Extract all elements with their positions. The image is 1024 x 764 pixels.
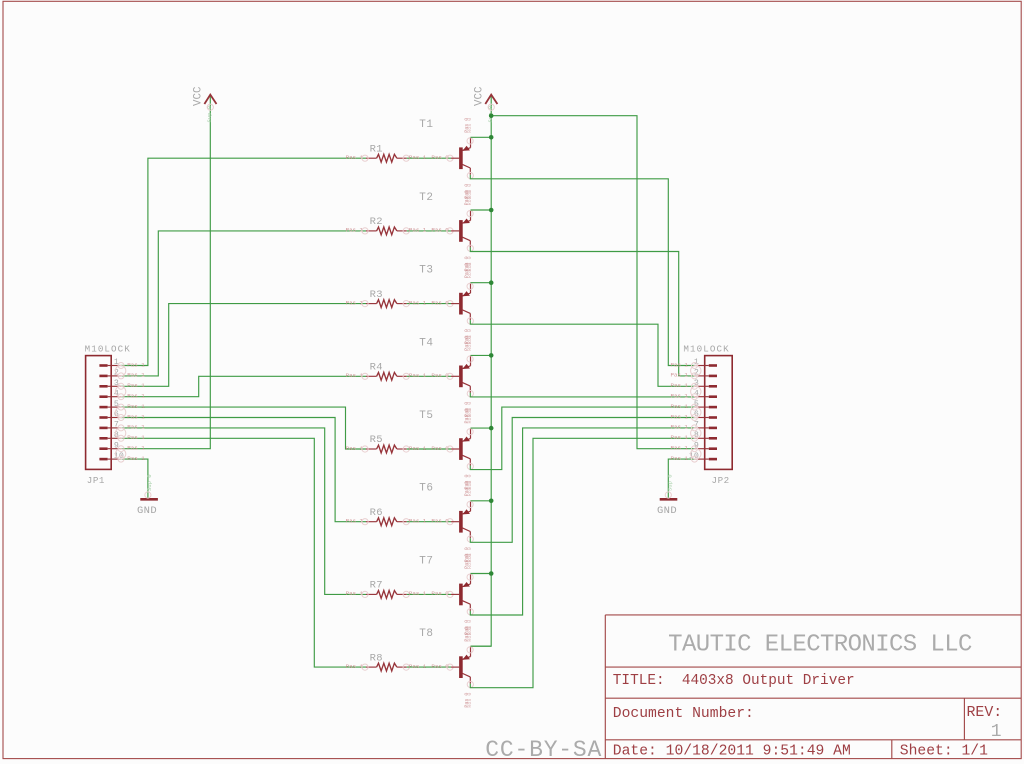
svg-text:Pas 1: Pas 1	[671, 434, 689, 441]
wire T6 collector to JP2 pin 6	[470, 418, 694, 543]
svg-text:R1: R1	[370, 143, 383, 155]
svg-text:JP2: JP2	[712, 475, 730, 486]
svg-text:Pas 1: Pas 1	[346, 154, 364, 161]
svg-text:Pas 1: Pas 1	[127, 393, 145, 400]
label Pas 1 / Pas 0 at T4 base	[409, 372, 453, 379]
resistor R6	[346, 507, 410, 526]
junction T3 emitter on VCC rail	[489, 280, 494, 285]
svg-text:R6: R6	[370, 507, 383, 519]
wire T4 collector to JP2 pin 4	[470, 393, 694, 397]
svg-text:Ros 0: Ros 0	[467, 627, 473, 642]
svg-text:REV:: REV:	[967, 705, 1003, 721]
svg-text:Ros 0: Ros 0	[467, 554, 473, 569]
JP1 pin 6	[99, 410, 145, 420]
svg-text:Pas 1: Pas 1	[127, 413, 145, 420]
wire T3 collector to JP2 pin 3	[470, 320, 694, 386]
wire JP1 pin 3 to R3	[121, 304, 366, 387]
wire T8 collector to JP2 pin 8	[470, 438, 694, 687]
svg-text:Pas 1: Pas 1	[671, 393, 689, 400]
resistor R4	[346, 362, 410, 381]
wire T6 emitter to VCC rail	[471, 500, 492, 502]
svg-text:R3: R3	[370, 289, 383, 301]
vcc supply VCC (left)	[193, 86, 217, 122]
JP2 pin 9	[671, 441, 718, 451]
JP2 pin 2	[671, 369, 718, 379]
svg-text:Pas 1: Pas 1	[671, 424, 689, 431]
resistor R7	[346, 580, 410, 599]
svg-text:GND: GND	[657, 505, 677, 517]
wire JP2 pin 10 to GND	[668, 459, 694, 499]
transistor T7	[419, 554, 473, 635]
wire R8 to T8 base	[407, 666, 451, 668]
svg-text:Ros 0: Ros 0	[467, 693, 473, 708]
svg-text:Pas 1: Pas 1	[127, 455, 145, 462]
revision	[967, 705, 1003, 742]
wire R6 to T6 base	[407, 521, 451, 523]
wire T7 collector to JP2 pin 7	[470, 428, 694, 615]
svg-text:Pas 1: Pas 1	[671, 372, 689, 379]
wire JP1 pin 10 to GND	[121, 459, 148, 499]
svg-text:Pas 1: Pas 1	[346, 227, 364, 234]
svg-text:Pas 1: Pas 1	[409, 299, 427, 306]
wire JP1 pin 9 to VCC	[121, 97, 210, 449]
svg-text:R2: R2	[370, 216, 383, 228]
svg-text:TITLE: 4403x8 Output Driver: TITLE: 4403x8 Output Driver	[613, 673, 855, 689]
svg-text:Pas 1: Pas 1	[127, 372, 145, 379]
label Pas 1 / Pas 0 at T3 base	[409, 299, 453, 306]
svg-text:Pas 1: Pas 1	[346, 372, 364, 379]
svg-text:T4: T4	[419, 337, 433, 349]
wire T3 emitter to VCC rail	[471, 282, 492, 284]
wire T5 collector to JP2 pin 5	[470, 407, 694, 470]
connector JP2 (M10LOCK)	[683, 344, 732, 486]
wire R7 to T7 base	[407, 593, 451, 595]
wire T8 emitter to VCC rail	[471, 645, 492, 647]
vcc supply VCC (right)	[474, 86, 498, 122]
resistor R1	[346, 143, 410, 162]
wire T2 collector to JP2 pin 2	[470, 247, 694, 376]
svg-text:Ros 0: Ros 0	[467, 263, 473, 278]
junction T2 emitter on VCC rail	[489, 208, 494, 213]
label Pas 1 / Pas 0 at T7 base	[409, 590, 453, 597]
junction VCC rail / JP2 pin 9 wire	[489, 113, 494, 118]
svg-text:Pas 1: Pas 1	[127, 445, 145, 452]
transistor T8	[419, 627, 473, 708]
wire T2 emitter to VCC rail	[471, 209, 492, 211]
wire JP1 pin 1 to R1	[121, 158, 366, 365]
junction T1 emitter on VCC rail	[489, 135, 494, 140]
transistor T4	[419, 336, 473, 417]
wire JP1 pin 4 to R4	[121, 376, 366, 396]
svg-text:Sheet: 1/1: Sheet: 1/1	[900, 744, 988, 760]
junction T7 emitter on VCC rail	[489, 571, 494, 576]
svg-text:Ros 0: Ros 0	[467, 481, 473, 496]
JP1 lock features	[115, 366, 125, 460]
svg-text:Date: 10/18/2011 9:51:49 AM: Date: 10/18/2011 9:51:49 AM	[613, 744, 851, 760]
wire VCC rail to JP2 pin 9	[491, 116, 694, 449]
svg-text:Pas 1: Pas 1	[409, 372, 427, 379]
svg-text:T7: T7	[419, 555, 433, 567]
JP1 pin 5	[99, 400, 145, 410]
svg-text:Ros 0: Ros 0	[467, 118, 473, 133]
wire T5 emitter to VCC rail	[471, 427, 492, 429]
svg-text:Pas 1: Pas 1	[346, 518, 364, 525]
JP1 pin 4	[99, 389, 145, 399]
svg-text:Pas 1: Pas 1	[346, 590, 364, 597]
JP1 pin 7	[99, 421, 145, 431]
svg-text:Pas 1: Pas 1	[671, 445, 689, 452]
svg-text:CC-BY-SA: CC-BY-SA	[485, 737, 602, 763]
svg-text:R8: R8	[370, 652, 383, 664]
wire R1 to T1 base	[407, 157, 451, 159]
resistor R5	[346, 434, 410, 453]
svg-text:Pas 1: Pas 1	[127, 382, 145, 389]
svg-text:Pas 1: Pas 1	[409, 154, 427, 161]
JP2 pin 10	[671, 452, 718, 462]
svg-text:T6: T6	[419, 483, 433, 495]
label Pas 1 / Pas 0 at T1 base	[409, 154, 453, 161]
svg-text:1: 1	[991, 722, 1002, 742]
svg-text:Ros 0: Ros 0	[467, 408, 473, 423]
JP2 pin 6	[671, 410, 718, 420]
JP1 pin 8	[99, 431, 145, 441]
svg-text:VCC: VCC	[193, 86, 205, 106]
svg-text:R5: R5	[370, 434, 383, 446]
svg-text:Pas 1: Pas 1	[671, 382, 689, 389]
wire R4 to T4 base	[407, 375, 451, 377]
svg-text:Document Number:: Document Number:	[613, 706, 754, 722]
label Pas 1 / Pas 0 at T8 base	[409, 663, 453, 670]
JP1 pin 10	[99, 452, 145, 462]
label Pas 1 / Pas 0 at T2 base	[409, 227, 453, 234]
svg-text:Pas 1: Pas 1	[346, 663, 364, 670]
wire JP1 pin 2 to R2	[121, 231, 366, 376]
svg-text:Pas 1: Pas 1	[671, 413, 689, 420]
label Pas 1 / Pas 0 at T6 base	[409, 518, 453, 525]
JP1 pin 2	[99, 369, 145, 379]
svg-text:Ros 0: Ros 0	[467, 190, 473, 205]
transistor T1	[419, 118, 473, 199]
wire JP1 pin 8 to R8	[121, 438, 366, 667]
transistor T5	[419, 408, 473, 489]
transistor T6	[419, 481, 473, 562]
svg-text:Pas 1: Pas 1	[671, 361, 689, 368]
svg-text:Pas 1: Pas 1	[127, 403, 145, 410]
wire VCC rail (emitters)	[471, 97, 492, 647]
svg-text:R7: R7	[370, 580, 383, 592]
JP2 pin 8	[671, 431, 718, 441]
transistor T3	[419, 263, 473, 344]
wire JP1 pin 6 to R6	[121, 418, 366, 522]
transistor T2	[419, 190, 473, 271]
svg-text:R4: R4	[370, 362, 383, 374]
svg-text:VCC: VCC	[474, 86, 486, 106]
svg-text:Pas 1: Pas 1	[671, 403, 689, 410]
svg-text:Pas 1: Pas 1	[671, 455, 689, 462]
ground GND (right)	[657, 474, 677, 517]
JP2 pin 5	[671, 400, 718, 410]
svg-text:T8: T8	[419, 628, 433, 640]
svg-text:Pas 1: Pas 1	[409, 227, 427, 234]
svg-text:T5: T5	[419, 410, 433, 422]
wire T4 emitter to VCC rail	[471, 354, 492, 356]
ground GND (left)	[137, 474, 158, 517]
svg-text:Pas 1: Pas 1	[127, 361, 145, 368]
JP2 pin 3	[671, 379, 718, 389]
svg-text:T1: T1	[419, 119, 433, 131]
resistor R2	[346, 216, 410, 235]
svg-text:TAUTIC ELECTRONICS LLC: TAUTIC ELECTRONICS LLC	[668, 631, 972, 658]
svg-text:Pas 1: Pas 1	[409, 445, 427, 452]
JP1 pin 3	[99, 379, 145, 389]
svg-text:GND: GND	[137, 505, 157, 517]
wire R2 to T2 base	[407, 230, 451, 232]
JP2 pin 4	[671, 389, 718, 399]
wire T1 emitter to VCC rail	[471, 136, 492, 138]
svg-text:Pas 1: Pas 1	[346, 299, 364, 306]
wire JP1 pin 7 to R7	[121, 428, 366, 595]
svg-text:JP1: JP1	[87, 475, 105, 486]
wire R3 to T3 base	[407, 303, 451, 305]
svg-text:T2: T2	[419, 192, 433, 204]
wire T1 collector to JP2 pin 1	[470, 175, 694, 366]
junction T4 emitter on VCC rail	[489, 353, 494, 358]
title block	[605, 615, 1021, 759]
svg-text:Ros 0: Ros 0	[467, 336, 473, 351]
junction T5 emitter on VCC rail	[489, 426, 494, 431]
wire T7 emitter to VCC rail	[471, 573, 492, 575]
junction T6 emitter on VCC rail	[489, 499, 494, 504]
svg-text:Pas 1: Pas 1	[127, 434, 145, 441]
svg-text:Pas 1: Pas 1	[409, 663, 427, 670]
JP1 pin 1	[99, 358, 145, 368]
svg-text:Pas 1: Pas 1	[127, 424, 145, 431]
label Pas 1 / Pas 0 at T5 base	[409, 445, 453, 452]
wire JP1 pin 5 to R5	[121, 407, 366, 449]
svg-text:M10LOCK: M10LOCK	[683, 344, 729, 355]
svg-text:T3: T3	[419, 265, 433, 277]
connector JP1 (M10LOCK)	[85, 344, 131, 486]
JP2 pin 1	[671, 358, 718, 368]
JP2 lock features	[691, 366, 701, 460]
svg-text:Pas 1: Pas 1	[346, 445, 364, 452]
JP1 pin 9	[99, 441, 145, 451]
wire R5 to T5 base	[407, 448, 451, 450]
resistor R3	[346, 289, 410, 308]
svg-text:Pas 1: Pas 1	[409, 590, 427, 597]
svg-text:Pas 1: Pas 1	[409, 518, 427, 525]
svg-text:Sup 0: Sup 0	[667, 474, 674, 491]
svg-text:M10LOCK: M10LOCK	[85, 344, 131, 355]
resistor R8	[346, 652, 410, 671]
JP2 pin 7	[671, 421, 718, 431]
svg-text:Sup 0: Sup 0	[146, 474, 153, 491]
